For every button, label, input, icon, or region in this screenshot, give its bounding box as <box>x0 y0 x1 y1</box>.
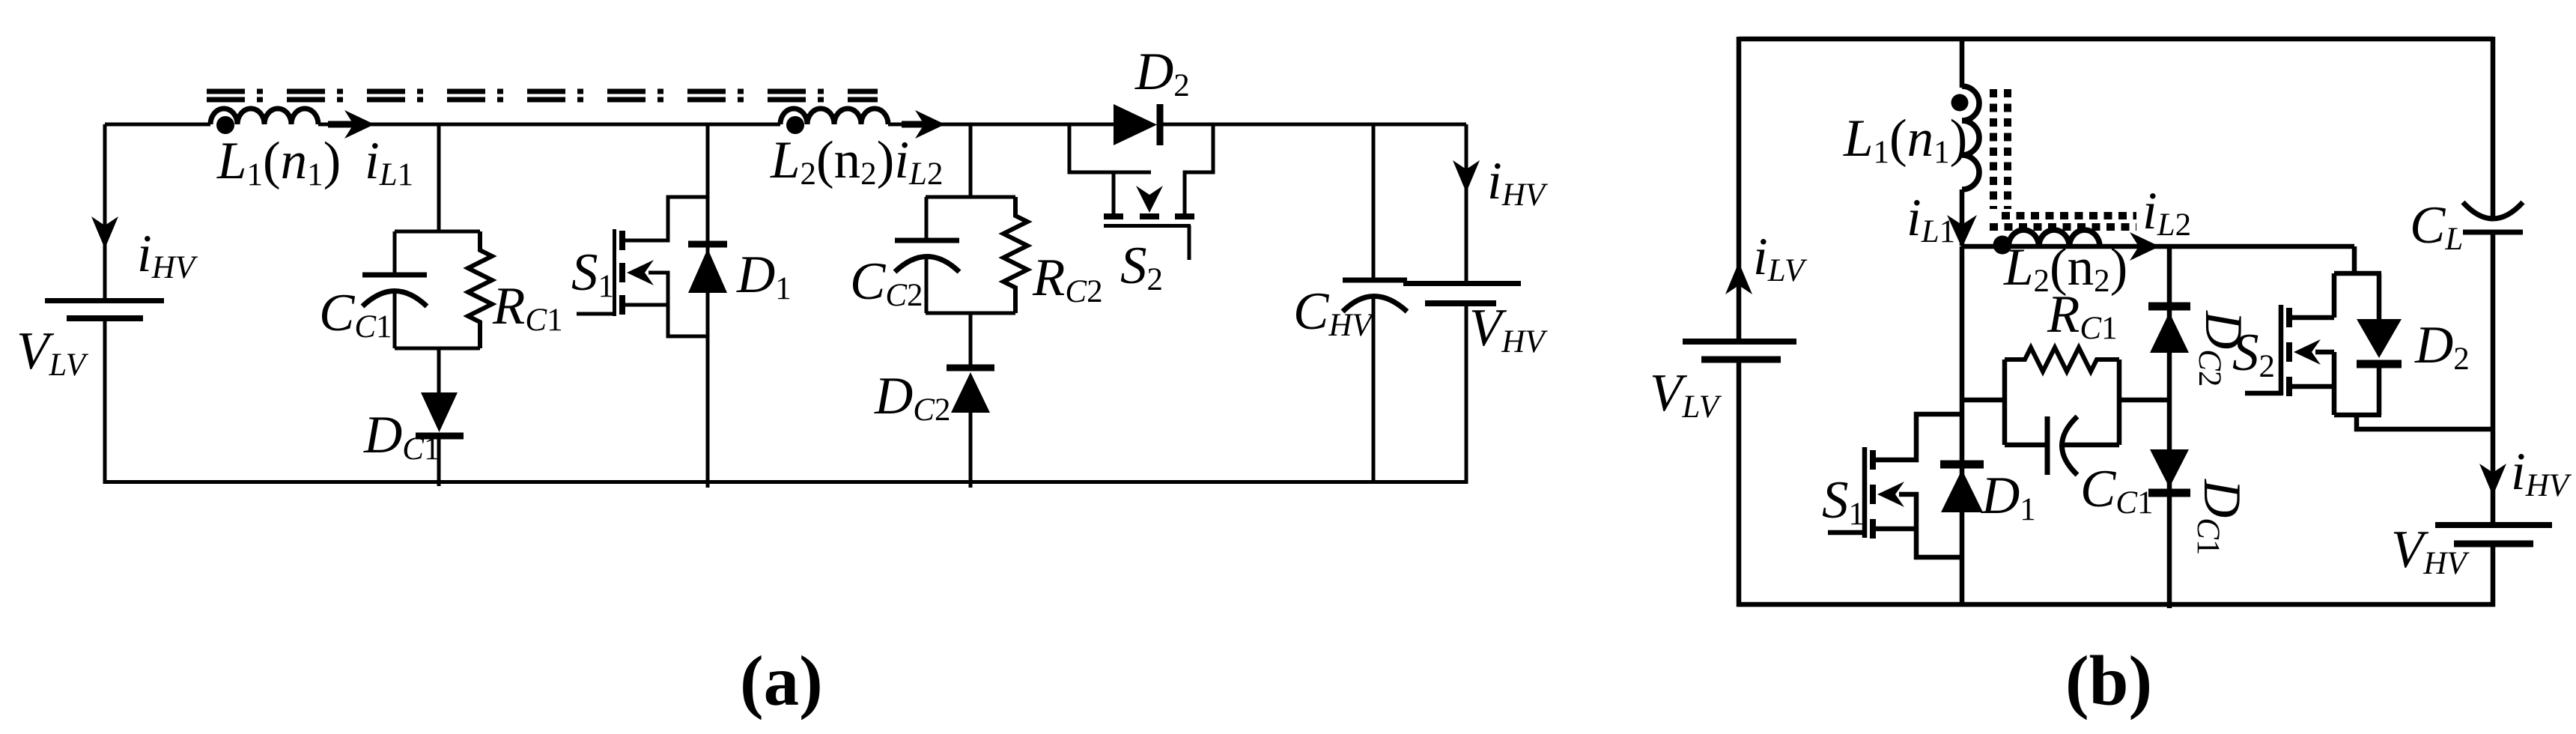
svg-text:L2(n2)iL2: L2(n2)iL2 <box>770 131 943 192</box>
inductor L1 <box>210 109 318 124</box>
wire: box2 to DC2 <box>969 313 973 367</box>
coupling dot L2 <box>786 116 804 134</box>
S2D2 top bar (b) <box>2334 271 2381 276</box>
mosfet S2 channel dashes <box>1104 213 1194 219</box>
wire: DC2 to bottom rail <box>969 411 973 488</box>
capacitor CC2 arc plate <box>895 257 959 273</box>
svg-text:D2: D2 <box>2414 316 2470 377</box>
mosfet S2 source stub (b) <box>2292 352 2334 415</box>
wire: L2 to D2 <box>888 123 1115 127</box>
mosfet S2 body arrow (left) (b) <box>2294 339 2321 365</box>
wire: CC1 branch down <box>437 124 441 231</box>
resistor RC1 <box>468 231 492 348</box>
battery VHV plate short <box>1425 300 1496 306</box>
svg-text:S2: S2 <box>1120 237 1163 297</box>
capacitor CC1 top lead <box>393 231 397 273</box>
mosfet S1 body arrow (left) <box>627 260 654 285</box>
mosfet S2 gate lead (b) <box>2245 391 2282 396</box>
wire: S2D2 exit to right rail (b) <box>2357 415 2495 429</box>
svg-text:S1: S1 <box>571 243 614 304</box>
wire: bottom rail (a) <box>103 480 1467 484</box>
svg-text:iL1: iL1 <box>1907 189 1955 249</box>
mosfet S1 channel dashes (b) <box>1870 450 1876 539</box>
arrow iHV-left (down) <box>91 216 118 249</box>
snubber box1 bottom <box>395 347 480 351</box>
mosfet S2 drain drop <box>1069 124 1151 172</box>
mosfet S1 drain stub (b) <box>1876 414 1962 460</box>
svg-text:D1: D1 <box>736 246 792 306</box>
svg-text:(b): (b) <box>2065 641 2152 721</box>
battery VHV plate long (b) <box>2435 522 2552 528</box>
wire: box1 to DC1 <box>437 348 441 394</box>
diode DC2 triangle (up) (b) <box>2150 312 2189 353</box>
diode DC2 bar <box>947 365 994 371</box>
capacitor CC1 plate (b) <box>2045 416 2050 475</box>
capacitor CL plate (b) <box>2463 230 2523 235</box>
inductor L2 (b) <box>2008 230 2100 247</box>
resistor RC2 <box>1003 197 1027 313</box>
svg-text:iHV: iHV <box>137 225 198 285</box>
capacitor CC1 arc plate <box>362 291 427 307</box>
mosfet S2 left stub <box>1112 172 1116 213</box>
mosfet S1 gate bar <box>613 229 616 316</box>
svg-text:iL1: iL1 <box>365 132 413 192</box>
diode DC1 triangle (down) <box>421 392 458 432</box>
wire: CC2 branch down <box>969 124 973 197</box>
mosfet S1 source stub <box>625 273 708 336</box>
svg-text:D2: D2 <box>1134 43 1190 103</box>
diode D1 vertical wire <box>706 124 710 488</box>
arrow iL1 (right) <box>328 121 353 128</box>
wire: L1 to node-CC1 to node-S1D1 to L2 <box>318 123 780 127</box>
svg-text:iHV: iHV <box>2511 443 2572 503</box>
svg-text:CL: CL <box>2410 196 2463 257</box>
wire: box-b left connector <box>1962 398 2005 403</box>
diode D1 triangle (up) (b) <box>1941 470 1983 512</box>
arrow iL1 (down) (b) <box>1947 215 1977 248</box>
arrow iHV-right (down) <box>1453 160 1480 192</box>
capacitor CHV arc plate <box>1343 297 1407 312</box>
mosfet S2 gate lead <box>1188 225 1191 260</box>
diode DC1 triangle (down) (b) <box>2150 449 2189 488</box>
diode DC2 triangle (up) <box>951 372 990 413</box>
snubber box-b left edge <box>2002 360 2008 445</box>
svg-text:VLV: VLV <box>16 322 89 383</box>
capacitor CC1 leads (b) <box>2005 443 2119 448</box>
wire: right rail (b) <box>2491 37 2496 607</box>
diode D2 branch (b) <box>2377 273 2382 415</box>
svg-text:D1: D1 <box>1981 467 2036 527</box>
diode D1 triangle (up) <box>688 249 727 293</box>
mosfet S1 gate bar (b) <box>1862 447 1868 538</box>
capacitor CC1 plate <box>362 273 427 278</box>
diode DC1 bar <box>416 433 464 440</box>
resistor RC1 (b) <box>2005 348 2119 371</box>
svg-text:VLV: VLV <box>1650 364 1722 425</box>
battery VLV plate long (b) <box>1683 339 1796 345</box>
battery VLV plate short <box>67 315 143 321</box>
battery VLV plate long <box>45 298 164 303</box>
coupling dashed elbow (b) <box>1990 89 2136 227</box>
diode D2 triangle (right) <box>1114 104 1157 145</box>
diode D1 bar (b) <box>1940 461 1984 469</box>
mosfet S1 channel dashes <box>619 231 625 315</box>
wire: right rail <box>1465 124 1468 484</box>
battery VHV plate short (b) <box>2454 541 2533 548</box>
S2D2 left branch (b) <box>2332 273 2337 318</box>
svg-text:CC1: CC1 <box>2080 460 2154 521</box>
diode DC1 bar (b) <box>2148 489 2190 497</box>
mosfet S2 gate bar (b) <box>2279 305 2284 395</box>
mosfet S1 source stub (b) <box>1876 494 1962 557</box>
svg-text:iL2: iL2 <box>2142 182 2191 243</box>
svg-text:S1: S1 <box>1822 471 1865 532</box>
wire: L1 to node (b) <box>1960 189 1965 246</box>
svg-text:(a): (a) <box>740 641 823 721</box>
svg-text:RC1: RC1 <box>492 277 563 338</box>
snubber box-b right edge <box>2117 360 2122 445</box>
wire: VLV+ to L1 <box>105 123 210 127</box>
wire: CHV to bottom rail <box>1372 295 1376 484</box>
diode D1 bar <box>688 241 727 248</box>
diode D2 bar <box>1157 104 1164 145</box>
diode D2 triangle (down) (b) <box>2357 319 2402 358</box>
snubber box2 top <box>926 195 1015 199</box>
inductor L1 (b) <box>1962 86 1979 189</box>
svg-text:CHV: CHV <box>1293 282 1375 343</box>
svg-text:L1(n1): L1(n1) <box>216 132 341 192</box>
mosfet S2 drain stub (b) <box>2292 315 2334 321</box>
mosfet S2 channel dashes (b) <box>2286 308 2292 396</box>
wire: top rail (b) <box>1739 37 2493 42</box>
coupling dot L1 <box>216 116 234 134</box>
capacitor CC2 top lead <box>925 197 929 238</box>
mosfet S2 source drop <box>1185 124 1213 213</box>
svg-text:DC1: DC1 <box>363 406 440 467</box>
capacitor CC2 plate <box>895 238 959 243</box>
arrow iHV (down) (b) <box>2479 464 2506 496</box>
coupling dot L2 (b) <box>1993 236 2012 255</box>
wire: left rail (b) <box>1737 37 1742 607</box>
snubber box2 bottom <box>926 312 1015 315</box>
snubber box1 top <box>395 230 480 234</box>
wire: mid vertical DC2/DC1 (b) <box>2167 246 2172 608</box>
wire: L2 row (b) <box>1962 244 2354 249</box>
diode D2 bar (b) <box>2357 360 2402 368</box>
wire: D2 to right end <box>1163 123 1466 127</box>
battery VHV plate long <box>1403 281 1521 286</box>
arrow iLV (up) <box>1725 262 1752 294</box>
battery VLV plate short (b) <box>1701 357 1781 363</box>
mosfet S2 gate bar <box>1104 224 1191 228</box>
svg-text:VHV: VHV <box>2391 521 2470 581</box>
diode D1 vertical wire (b) <box>1960 246 1965 607</box>
S2D2 bottom bar (b) <box>2334 413 2381 418</box>
wire: box-b right connector <box>2119 398 2169 403</box>
svg-text:iHV: iHV <box>1487 152 1549 213</box>
coupling dash-dot line (a) <box>207 91 878 100</box>
svg-text:VHV: VHV <box>1469 299 1548 360</box>
svg-text:iLV: iLV <box>1753 228 1808 288</box>
wire: top to L1 (b) <box>1960 39 1965 88</box>
diode DC2 bar (b) <box>2148 303 2190 311</box>
wire: S2D2 entry drop (b) <box>2352 246 2357 273</box>
mosfet S1 body arrow (left) (b) <box>1877 482 1904 507</box>
arrow iL2 (right) (b) <box>2130 232 2160 261</box>
capacitor CC1 arc plate (b) <box>2062 416 2078 475</box>
arrow iL2 (right) <box>902 121 923 128</box>
svg-text:S2: S2 <box>2232 324 2275 384</box>
wire: CHV branch <box>1372 124 1376 278</box>
mosfet S2 body arrow (down) <box>1136 186 1163 213</box>
inductor L2 <box>780 109 888 124</box>
svg-text:L1(n1): L1(n1) <box>1843 109 1967 170</box>
wire: left rail <box>103 124 107 484</box>
mosfet S1 gate lead <box>577 312 615 316</box>
mosfet S1 gate lead (b) <box>1828 530 1866 536</box>
mosfet S1 drain stub <box>625 197 708 240</box>
wire: DC1 to bottom rail <box>437 439 441 486</box>
capacitor CL arc plate (b) <box>2463 202 2523 219</box>
capacitor CC1 bottom lead <box>393 290 397 348</box>
capacitor CHV plate <box>1343 278 1407 283</box>
wire: bottom rail (b) <box>1737 602 2495 607</box>
svg-text:DC2: DC2 <box>874 367 950 428</box>
coupling dot L1 (b) <box>1951 94 1969 112</box>
svg-text:DC1: DC1 <box>2190 479 2251 555</box>
capacitor CC2 bottom lead <box>925 255 929 313</box>
svg-text:RC2: RC2 <box>1032 249 1103 309</box>
